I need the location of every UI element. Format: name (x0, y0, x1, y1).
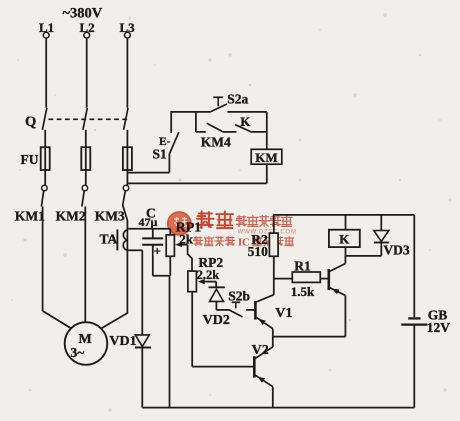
battery GB 12V (401, 215, 450, 408)
svg-text:KM1: KM1 (15, 209, 45, 224)
wire fuses to KM contacts (45, 170, 127, 185)
svg-text:KM4: KM4 (201, 135, 231, 150)
svg-text:K: K (339, 231, 350, 246)
svg-text:510: 510 (248, 244, 269, 259)
relay contact K (235, 114, 267, 132)
wire S2a to node (227, 111, 266, 113)
terminal L1 (39, 20, 54, 38)
diode VD1 (109, 250, 151, 407)
svg-text:VD3: VD3 (383, 242, 409, 257)
wire L3 drop (126, 38, 128, 108)
motor M 3~ (65, 322, 108, 365)
potentiometer RP1 2k (166, 221, 201, 276)
svg-text:V1: V1 (275, 306, 292, 321)
diode VD2 (203, 287, 230, 328)
svg-text:3~: 3~ (71, 345, 85, 360)
wire right control drop (266, 112, 268, 149)
svg-text:KM2: KM2 (56, 209, 86, 224)
wire RP2 to V2 base (192, 366, 253, 368)
svg-text:VD1: VD1 (109, 334, 136, 349)
wire L1 drop (45, 38, 47, 108)
svg-text:KM: KM (255, 150, 277, 165)
wire phase1 to motor (43, 207, 71, 329)
contactor contact KM2 (56, 185, 88, 223)
svg-text:S2b: S2b (228, 289, 250, 304)
svg-text:12V: 12V (427, 320, 451, 335)
contactor contact KM3 (95, 185, 129, 223)
transistor V1 (255, 279, 292, 337)
svg-text:R1: R1 (294, 258, 311, 273)
wire K / VD3 node (346, 255, 382, 257)
fuse FU (phase 1) (21, 147, 50, 170)
wire C bottom junction (153, 276, 170, 408)
svg-text:KM3: KM3 (95, 209, 125, 224)
fuse (phase 3) (123, 147, 132, 170)
svg-text:TA: TA (100, 232, 118, 247)
svg-text:S2a: S2a (227, 92, 248, 107)
capacitor C 47u (139, 206, 164, 276)
svg-text:+: + (154, 244, 161, 259)
wire ground bus (bottom) (142, 407, 414, 409)
svg-text:VD2: VD2 (203, 313, 230, 328)
svg-text:47μ: 47μ (139, 215, 158, 229)
svg-text:S1: S1 (153, 147, 168, 162)
wire S1 to L3 (127, 172, 169, 174)
transistor (driver) (329, 256, 346, 337)
wire KM coil return to L3 (127, 164, 266, 183)
potentiometer RP2 2.2k (188, 255, 223, 367)
svg-text:K: K (240, 114, 251, 129)
contactor coil KM (251, 149, 282, 165)
contact KM4 (201, 123, 237, 149)
wire phase3 through TA to motor (101, 205, 127, 328)
label ~380V (63, 6, 103, 22)
wire emitter bus (273, 336, 346, 338)
switch Q (3-pole breaker with linkage) (25, 108, 129, 130)
relay coil K (329, 215, 360, 256)
wire S1 top corner / control bus left (171, 112, 211, 133)
pushbutton S2b (216, 289, 254, 317)
terminal L3 (120, 20, 136, 38)
svg-text:FU: FU (21, 152, 39, 167)
wire L2 drop (86, 38, 88, 108)
resistor R1 1.5k (274, 258, 328, 299)
svg-text:1.5k: 1.5k (291, 284, 315, 299)
wire stub to KM4 branch (196, 112, 206, 132)
contactor contact KM1 (15, 185, 47, 223)
switch S1 (153, 132, 179, 172)
pushbutton S2a (211, 92, 249, 112)
wire phase2 to motor (84, 207, 86, 323)
wire TA top to C and RP1 (127, 228, 170, 230)
resistor R2 510 (248, 215, 415, 279)
svg-text:2.2k: 2.2k (197, 268, 220, 282)
wire Q to fuses (45, 130, 127, 147)
fuse (phase 2) (81, 147, 90, 170)
diode VD3 (374, 215, 410, 257)
transistor V2 (252, 337, 273, 408)
svg-text:Q: Q (25, 114, 36, 130)
current transformer TA (100, 229, 128, 250)
terminal L2 (80, 20, 95, 38)
svg-text:V2: V2 (252, 343, 269, 358)
